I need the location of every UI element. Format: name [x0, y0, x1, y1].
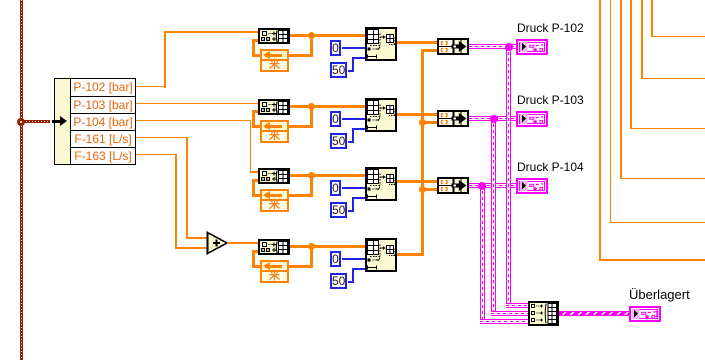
- feedback node row1: [260, 49, 289, 61]
- wire R1-M1: [397, 41, 437, 44]
- merge-signals icon row1: [439, 40, 467, 53]
- wire feedback into-node row3: [252, 179, 259, 182]
- wire 50 h1 row4: [348, 281, 353, 283]
- build-array icon row2: [260, 101, 288, 114]
- build-array node row2: [258, 99, 290, 115]
- wire 50 h2 row3: [352, 197, 366, 199]
- wire feedback left-h row1: [252, 54, 261, 57]
- junction build-array out row2: [308, 103, 315, 110]
- constant 50 row1: [330, 62, 347, 78]
- wire 0 row1: [342, 47, 365, 49]
- constant 50 row3: [330, 202, 347, 218]
- label Druck P-103: [517, 94, 584, 107]
- wire stair2 v: [610, 0, 612, 223]
- wire dyn M2-ind2: [469, 116, 516, 121]
- feedback node row2: [260, 120, 289, 132]
- wire add out: [227, 242, 258, 244]
- build-array icon row1: [260, 30, 288, 43]
- wire feedback lower row1: [289, 54, 313, 57]
- build-array icon row3: [260, 170, 288, 183]
- wire feedback drop row3: [310, 175, 313, 197]
- wire stair5 v: [641, 0, 643, 79]
- replace-array-subset node row2: [365, 98, 397, 132]
- wire 50 h1 row2: [348, 141, 353, 143]
- wire 0 row2: [342, 118, 365, 120]
- wire 0 row4: [342, 258, 365, 260]
- constant 50 row4: [330, 273, 347, 289]
- wire feedback left-v row4: [252, 250, 255, 268]
- wire F-163 in h: [175, 247, 208, 249]
- junction build-array out row1: [308, 32, 315, 39]
- indicator Überlagert: [629, 306, 661, 322]
- wire dyn M3-ind3: [469, 183, 516, 188]
- wire P-104 in h: [250, 171, 259, 173]
- constant 0 row4: [330, 251, 341, 267]
- wire F-161 in h: [186, 237, 208, 239]
- indicator Druck P-104: [516, 178, 548, 194]
- constant 0 row3: [330, 180, 341, 196]
- wire array main row2: [289, 105, 365, 108]
- wire 50 v row2: [352, 128, 354, 143]
- label Druck P-104: [517, 161, 584, 174]
- wire 50 h2 row2: [352, 128, 366, 130]
- wire feedback drop row4: [310, 246, 313, 268]
- junction cluster wire: [17, 118, 25, 126]
- wire R3-M3: [397, 180, 437, 183]
- wire F-161 drop v: [186, 137, 188, 239]
- build-array collector node: [528, 301, 559, 326]
- wire 50 v row4: [352, 268, 354, 283]
- wire stair4 v: [630, 0, 632, 129]
- indicator Druck P-103: [516, 111, 548, 127]
- merge-signals node row3: [437, 177, 469, 194]
- wire feedback left-h row3: [252, 194, 261, 197]
- wire feedback left-v row1: [252, 39, 255, 57]
- wire 0 row3: [342, 187, 365, 189]
- wire cluster branch to unbundle: [23, 120, 50, 123]
- feedback initializer row2: [260, 130, 289, 143]
- wire feedback into-node row1: [252, 39, 259, 42]
- wire stair3 v: [620, 0, 622, 179]
- wire 50 h1 row3: [348, 210, 353, 212]
- replace-array-subset node row1: [365, 27, 397, 61]
- wire 50 v row1: [352, 57, 354, 72]
- replace-array-subset icon row2: [367, 100, 396, 130]
- wire feedback lower row4: [289, 265, 313, 268]
- wire P-102 top h: [164, 31, 258, 33]
- wire feedback left-v row3: [252, 179, 255, 197]
- wire dyn drop1 v: [506, 46, 511, 308]
- merge-signals icon row2: [439, 112, 467, 125]
- wire 50 h1 row1: [348, 70, 353, 72]
- replace-array-subset node row3: [365, 167, 397, 201]
- wire array main row4: [289, 245, 365, 248]
- wire dyn drop3 h: [480, 319, 529, 324]
- wire feedback into-node row4: [252, 250, 259, 253]
- wire P-104 drop v: [250, 120, 252, 173]
- wire P-103 h: [136, 103, 258, 105]
- junction build-array out row3: [308, 172, 315, 179]
- wire dyn drop2 h: [491, 311, 529, 316]
- wire feedback drop row1: [310, 35, 313, 57]
- wire feed vertical: [421, 49, 424, 256]
- wire stair6 h: [651, 36, 705, 38]
- wire array main row1: [289, 34, 365, 37]
- junction dyn row2: [490, 115, 498, 123]
- arrow into unbundle head: [60, 116, 67, 126]
- wire P-102 out h: [136, 86, 166, 88]
- wire P-102 riser v: [164, 31, 166, 88]
- wire F-161 h: [136, 137, 188, 139]
- wire 50 v row3: [352, 197, 354, 212]
- wire array main row3: [289, 174, 365, 177]
- wire stair4 h: [630, 128, 705, 130]
- build-array node row4: [258, 239, 290, 255]
- wire feed M3 stub: [424, 188, 437, 191]
- junction feed M3: [419, 186, 426, 193]
- label Überlagert: [629, 288, 690, 301]
- junction build-array out row4: [308, 243, 315, 250]
- wire cluster trunk vertical: [20, 0, 23, 360]
- wire dyn M1-ind1: [469, 44, 516, 49]
- op-amp style add node +: [206, 231, 229, 255]
- wire feedback into-node row2: [252, 110, 259, 113]
- feedback initializer row4: [260, 270, 289, 283]
- wire R4 out: [397, 253, 424, 256]
- replace-array-subset node row4: [365, 238, 397, 272]
- wire stair6 v: [651, 0, 653, 37]
- build-array node row1: [258, 28, 290, 44]
- build-array icon row4: [260, 241, 288, 254]
- wire stair2 h: [610, 222, 705, 224]
- constant 0 row1: [330, 40, 341, 56]
- feedback node row4: [260, 260, 289, 272]
- junction dyn row3: [478, 182, 486, 190]
- wire stair5 h: [641, 78, 705, 80]
- wire P-104 h: [136, 120, 251, 122]
- wire 50 h2 row4: [352, 268, 366, 270]
- wire stair1 h: [599, 259, 705, 261]
- arrow into unbundle shaft: [52, 120, 62, 123]
- label Druck P-102: [517, 22, 584, 35]
- wire feed M1 stub: [421, 49, 437, 52]
- junction dyn row1: [505, 43, 513, 51]
- junction feed M2: [419, 119, 426, 126]
- merge-signals node row2: [437, 110, 469, 127]
- wire dyn drop2 v: [491, 118, 496, 316]
- unbundle node P-102..F-163: [54, 78, 136, 165]
- feedback initializer row1: [260, 59, 289, 72]
- wire feedback left-v row2: [252, 110, 255, 128]
- wire 50 h2 row1: [352, 57, 366, 59]
- indicator Druck P-102: [516, 39, 548, 55]
- constant 50 row2: [330, 133, 347, 149]
- wire F-163 drop v: [175, 154, 177, 249]
- wire feed M2 stub: [424, 121, 437, 124]
- wire stair3 h: [620, 178, 705, 180]
- build-array node row3: [258, 168, 290, 184]
- wire feedback left-h row2: [252, 125, 261, 128]
- wire F-163 h: [136, 154, 177, 156]
- replace-array-subset icon row3: [367, 169, 396, 199]
- replace-array-subset icon row4: [367, 240, 396, 270]
- wire feedback drop row2: [310, 106, 313, 128]
- wire feedback lower row3: [289, 194, 313, 197]
- build-array collector icon: [530, 303, 557, 324]
- wire feedback lower row2: [289, 125, 313, 128]
- merge-signals node row1: [437, 38, 469, 55]
- feedback initializer row3: [260, 199, 289, 212]
- merge-signals icon row3: [439, 179, 467, 192]
- replace-array-subset icon row1: [367, 29, 396, 59]
- constant 0 row2: [330, 111, 341, 127]
- wire R2-M2: [397, 113, 437, 116]
- wire dyn drop1 h: [506, 303, 529, 308]
- feedback node row3: [260, 189, 289, 201]
- wire stair1 v: [599, 0, 601, 261]
- wire feedback left-h row4: [252, 265, 261, 268]
- wire dyn collector out braided: [559, 311, 629, 316]
- wire dyn drop3 v: [480, 185, 485, 324]
